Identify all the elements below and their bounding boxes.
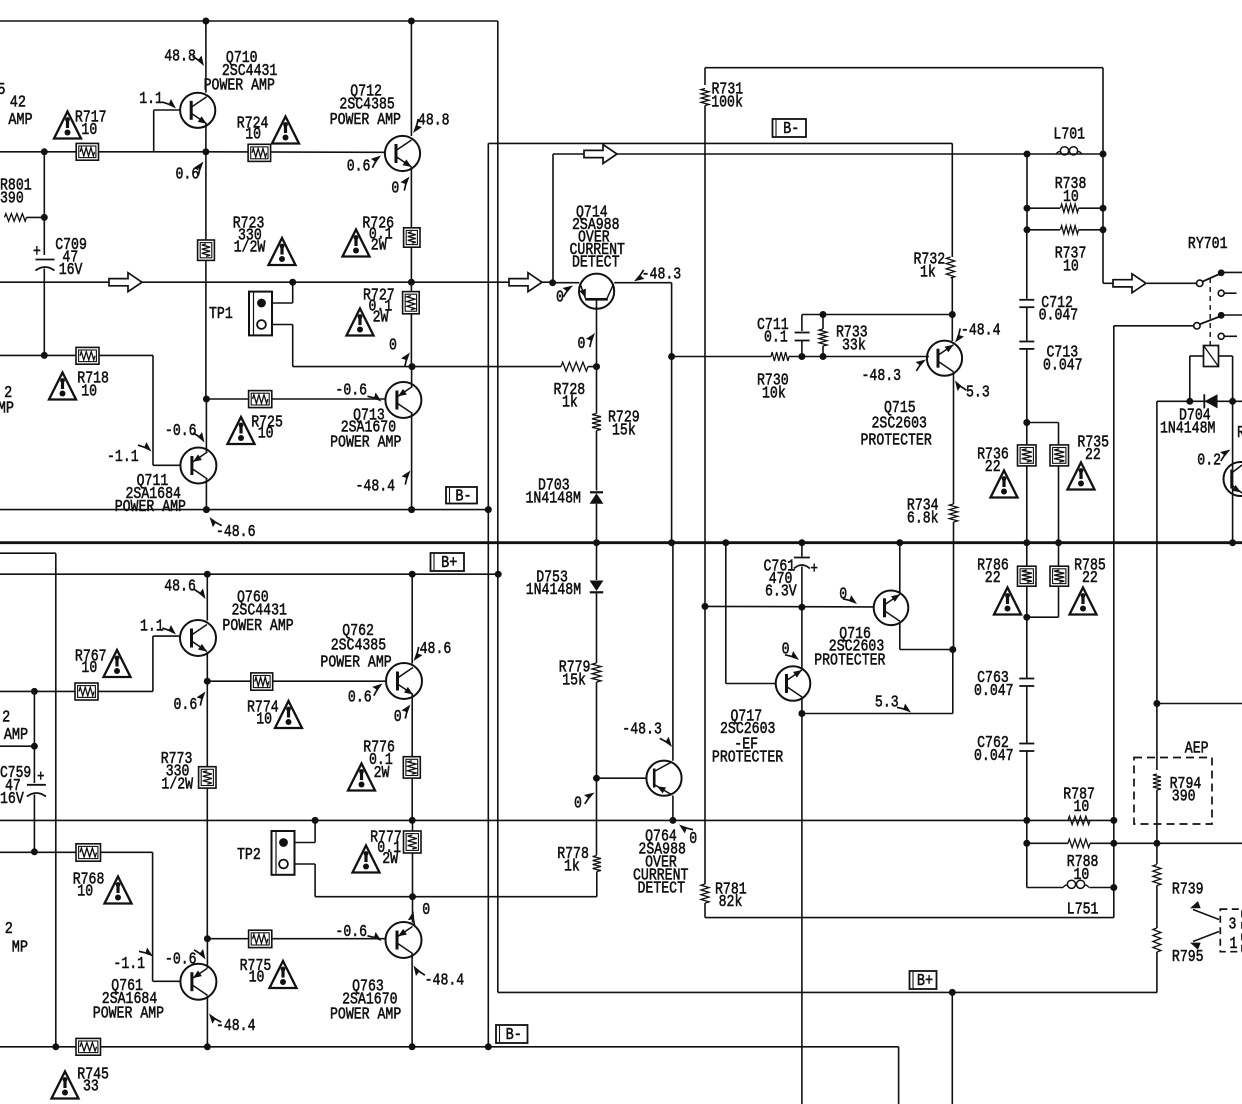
resistor R777	[404, 831, 422, 853]
wire Q764 emitter down	[672, 796, 674, 821]
svg-text:33k: 33k	[842, 337, 866, 355]
svg-text:2: 2	[5, 919, 13, 939]
wire C762 down	[1026, 751, 1028, 888]
wire speaker return vertical	[1113, 326, 1115, 918]
node C709 bottom junction	[41, 352, 48, 359]
node output rail right end	[1110, 817, 1117, 824]
svg-text:B-: B-	[455, 486, 471, 506]
svg-text:-48.4: -48.4	[961, 322, 1001, 340]
resistor R727	[403, 292, 420, 314]
svg-text:PROTECTER: PROTECTER	[712, 749, 783, 767]
wire TP2 bottom pin	[295, 863, 316, 865]
svg-text:390: 390	[0, 190, 24, 208]
capacitor C711	[801, 315, 803, 332]
wire Q717 base feed	[725, 543, 727, 684]
wire Q764 collector up	[672, 543, 674, 761]
AEP dashed box	[1134, 758, 1212, 825]
svg-text:48.8: 48.8	[164, 48, 196, 66]
wire coil right lead	[1219, 355, 1233, 357]
svg-text:MP: MP	[0, 398, 14, 418]
node Q716 at bus	[896, 539, 903, 546]
label B- top block	[446, 487, 477, 504]
wire top supply rail 48.8V	[0, 20, 498, 22]
wire R774 line	[207, 680, 386, 682]
svg-text:2W: 2W	[371, 237, 387, 255]
svg-text:-1.1: -1.1	[107, 449, 139, 467]
svg-text:B+: B+	[917, 971, 933, 991]
node Q714 base junction	[593, 363, 600, 370]
wire relay feed	[1103, 282, 1113, 284]
svg-text:-48.4: -48.4	[425, 972, 465, 990]
node Q713 collector at rail	[408, 506, 415, 513]
resistor R795	[1153, 928, 1161, 952]
svg-text:0.2: 0.2	[1197, 452, 1221, 470]
svg-text:10k: 10k	[762, 385, 786, 403]
wire R778 bottom line	[315, 896, 597, 898]
transistor Q713	[385, 382, 421, 418]
svg-text:2W: 2W	[382, 851, 398, 869]
wire B+ bottom bus	[498, 991, 1157, 993]
resistor R768 line	[0, 851, 153, 853]
node Q714 emitter wire junction	[549, 279, 556, 286]
svg-text:0: 0	[556, 289, 564, 307]
resistor R735	[1058, 423, 1060, 445]
resistor R739	[1156, 843, 1158, 864]
input arrow top block	[109, 273, 142, 292]
svg-text:1/2W: 1/2W	[161, 776, 193, 794]
svg-text:0: 0	[422, 902, 430, 920]
svg-text:22: 22	[985, 570, 1001, 588]
node C761 at bus	[798, 539, 805, 546]
node Q762 collector at rail	[409, 571, 416, 578]
wire top block negative rail -48.6	[0, 509, 488, 511]
svg-text:2W: 2W	[374, 765, 390, 783]
svg-text:10: 10	[256, 711, 272, 729]
resistor R768	[76, 844, 101, 861]
node R781 top junction	[702, 603, 709, 610]
capacitor C763	[1026, 617, 1028, 677]
svg-text:-0.6: -0.6	[335, 924, 367, 942]
wire Q710 collector	[205, 21, 207, 93]
wire Q716 emitter link	[900, 649, 953, 651]
svg-text:0: 0	[394, 709, 402, 727]
node B- rail junctions	[52, 1043, 59, 1050]
svg-text:AMP: AMP	[4, 725, 28, 745]
relay pole 1	[1197, 280, 1203, 286]
wire Q716 base line	[705, 605, 874, 608]
node L701 right junction	[1100, 151, 1107, 158]
resistor R785	[1058, 543, 1060, 567]
resistor R725	[249, 391, 272, 408]
wire Q762 emitter	[411, 695, 413, 757]
wire speaker line riser	[552, 154, 554, 283]
svg-text:1/2W: 1/2W	[234, 239, 266, 257]
relay pole 2	[1194, 323, 1200, 329]
svg-text:POWER AMP: POWER AMP	[330, 112, 401, 130]
wire R725 line	[206, 398, 385, 400]
svg-text:22: 22	[1082, 570, 1098, 588]
svg-text:-48.4: -48.4	[356, 478, 396, 496]
svg-text:1N4148M: 1N4148M	[526, 582, 581, 600]
wire C759 bottom	[33, 795, 35, 852]
node Q714 collector at bus	[668, 539, 675, 546]
svg-text:10: 10	[249, 969, 265, 987]
node Q711 collector at rail	[203, 506, 210, 513]
connector dashed box	[1220, 909, 1242, 952]
node B+ bus to speaker feed	[949, 989, 956, 996]
wire Q764 base lead	[597, 777, 646, 779]
resistor R733	[822, 315, 824, 330]
arrow to relay	[1113, 274, 1146, 293]
wire bottom B- rail	[0, 1046, 899, 1048]
resistor R731	[704, 68, 706, 85]
svg-text:POWER AMP: POWER AMP	[115, 499, 186, 517]
transistor Q761	[180, 964, 216, 1000]
wire Q716 collector up	[899, 543, 901, 593]
wire Q714 collector lead	[614, 282, 671, 284]
wire AEP feed vertical	[1156, 401, 1158, 770]
svg-text:L701: L701	[1053, 126, 1085, 144]
wire Q760 base jog	[152, 636, 154, 691]
svg-text:B-: B-	[506, 1025, 522, 1045]
svg-text:0.047: 0.047	[1039, 307, 1079, 325]
svg-text:5: 5	[0, 80, 6, 100]
wire Q713 collector down	[411, 414, 413, 510]
svg-text:B-: B-	[783, 119, 799, 139]
node Q760 emitter junction	[204, 678, 211, 685]
resistor R774	[251, 673, 273, 690]
svg-text:1.1: 1.1	[140, 618, 164, 636]
svg-text:R795: R795	[1172, 949, 1204, 967]
node Q717 collector junction	[798, 604, 805, 611]
wire arrow to switch	[1147, 282, 1197, 284]
node Q762 emitter at output rail	[409, 817, 416, 824]
wire 5.3 line	[802, 713, 953, 715]
wire Q763 emitter from R777 node	[412, 897, 414, 923]
resistor R723 chain	[205, 152, 207, 240]
svg-text:PROTECTER: PROTECTER	[861, 432, 932, 450]
svg-text:0: 0	[839, 586, 847, 604]
wire Q714 collector vertical	[671, 283, 673, 543]
capacitor C762	[1026, 686, 1028, 743]
svg-text:10: 10	[81, 383, 97, 401]
svg-text:10: 10	[81, 122, 97, 140]
wire B- top distribution line	[488, 142, 952, 144]
node Q710 collector at rail	[202, 18, 209, 25]
resistor R778	[596, 778, 598, 855]
wire Q716 emitter down	[899, 623, 901, 650]
inductor L751	[1067, 880, 1075, 888]
node TP2 at output rail	[312, 817, 319, 824]
svg-text:-48.3: -48.3	[622, 721, 662, 739]
test point TP2	[272, 831, 295, 875]
svg-text:10: 10	[245, 127, 261, 145]
svg-text:RY701: RY701	[1188, 236, 1228, 254]
svg-text:82k: 82k	[719, 894, 743, 912]
svg-text:5.3: 5.3	[966, 384, 990, 402]
resistor R773 chain	[206, 681, 208, 767]
wire R718 base line	[0, 354, 153, 356]
node R786 at bus	[1023, 539, 1030, 546]
svg-text:10: 10	[77, 883, 93, 901]
transistor Q760	[180, 620, 216, 656]
node Q712 collector at rail	[408, 18, 415, 25]
svg-text:48.6: 48.6	[164, 578, 196, 596]
svg-text:1k: 1k	[562, 394, 578, 412]
resistor R767	[75, 683, 98, 700]
transistor Q712	[385, 136, 420, 171]
transistor Q762	[386, 663, 422, 699]
wire R794 to junction	[1156, 790, 1158, 843]
svg-text:0: 0	[578, 336, 586, 354]
svg-text:TP1: TP1	[209, 306, 233, 324]
svg-text:DETECT: DETECT	[638, 880, 686, 898]
transistor Q718 partial at edge	[1224, 462, 1242, 496]
svg-text:1N4148M: 1N4148M	[1160, 420, 1215, 438]
wire B- feed stub left	[0, 552, 56, 554]
node Q710 emitter junction	[202, 148, 209, 155]
svg-text:3: 3	[1229, 916, 1237, 934]
wire Q717 emitter below to bottom	[801, 714, 803, 1104]
wire R736 R735 top link	[1027, 422, 1059, 424]
node D704 cathode junction	[1229, 398, 1236, 405]
svg-text:POWER AMP: POWER AMP	[93, 1005, 164, 1023]
node Q764 base junction	[593, 775, 600, 782]
resistor R775	[249, 930, 272, 947]
wire R851 stub	[0, 745, 34, 747]
wire Q761 collector down	[206, 996, 208, 1047]
resistor R779	[596, 592, 598, 663]
wire Q710 emitter	[205, 124, 207, 152]
svg-text:1k: 1k	[920, 264, 936, 282]
node C709 top junction	[41, 148, 48, 155]
label B+ upper	[431, 553, 465, 571]
node Q717 emitter junction	[798, 710, 805, 717]
resistor R729	[592, 414, 601, 431]
resistor R786	[1026, 543, 1028, 567]
wire Q712 emitter to R726	[410, 167, 412, 228]
wire speaker feed down	[951, 992, 953, 1104]
svg-text:16V: 16V	[59, 262, 83, 280]
node R777 bottom junction	[409, 893, 416, 900]
node negative rail to B- vertical	[485, 506, 492, 513]
svg-text:B+: B+	[441, 553, 457, 573]
wire C709 vertical	[43, 152, 45, 255]
svg-text:2SC2603: 2SC2603	[872, 415, 927, 433]
node R725 line junction	[203, 396, 210, 403]
capacitor C712	[1026, 230, 1028, 299]
svg-text:R739: R739	[1172, 881, 1204, 899]
capacitor C713	[1026, 307, 1028, 340]
wire TP1 top pin	[272, 302, 293, 304]
wire R788 line to edge	[1114, 842, 1242, 844]
node L751 right	[1110, 884, 1117, 891]
svg-text:L751: L751	[1067, 901, 1099, 919]
node D704 anode junction	[1186, 398, 1193, 405]
node R801 junction	[41, 214, 48, 221]
svg-text:-0.6: -0.6	[335, 382, 367, 400]
svg-text:TP2: TP2	[237, 847, 261, 865]
svg-text:+: +	[37, 769, 44, 787]
resistor R776	[403, 757, 420, 778]
node C762 at output rail	[1023, 817, 1030, 824]
label B- bottom	[496, 1025, 528, 1043]
resistor R734	[949, 504, 957, 522]
svg-text:-48.6: -48.6	[216, 524, 256, 542]
connector arrow lower	[1193, 932, 1219, 942]
wire D704 line	[1157, 400, 1242, 402]
svg-text:-1.1: -1.1	[113, 956, 145, 974]
svg-text:POWER AMP: POWER AMP	[330, 434, 401, 452]
wire Q711 collector down	[205, 479, 207, 510]
svg-text:33: 33	[83, 1078, 99, 1096]
svg-text:0.047: 0.047	[974, 683, 1014, 701]
svg-text:1k: 1k	[564, 858, 580, 876]
diode D753	[596, 543, 598, 580]
svg-text:0.6: 0.6	[348, 689, 372, 707]
wire R724 line	[206, 151, 385, 154]
svg-text:0.6: 0.6	[347, 158, 371, 176]
resistor R726	[404, 228, 420, 247]
node TP1 at output rail	[289, 279, 296, 286]
node R786 bottom junction	[1023, 614, 1030, 621]
svg-text:-48.4: -48.4	[216, 1018, 256, 1036]
svg-text:AMP: AMP	[8, 110, 32, 130]
label B+ lower	[910, 971, 937, 989]
wire pole2 feed	[1114, 325, 1194, 327]
svg-text:15k: 15k	[562, 672, 586, 690]
node Q760 collector at rail	[204, 571, 211, 578]
svg-text:22: 22	[1085, 447, 1101, 465]
node R851 junction	[31, 743, 38, 750]
relay coil	[1204, 346, 1219, 367]
svg-text:10: 10	[81, 660, 97, 678]
resistor R730	[771, 352, 789, 361]
svg-text:48.6: 48.6	[420, 641, 452, 659]
svg-text:0: 0	[389, 337, 397, 355]
svg-text:10: 10	[1063, 258, 1079, 276]
wire L701 right vertical	[1102, 68, 1104, 284]
relay linkage dashed	[1209, 278, 1211, 345]
svg-text:MP: MP	[12, 937, 28, 957]
transistor Q715	[927, 341, 962, 376]
svg-text:390: 390	[1172, 788, 1196, 806]
svg-text:16V: 16V	[0, 791, 24, 809]
inductor L701	[1060, 147, 1068, 155]
svg-text:1: 1	[1230, 936, 1238, 954]
wire coil left lead	[1190, 355, 1204, 357]
wire Q715 emitter top	[951, 315, 953, 342]
svg-text:48.8: 48.8	[418, 112, 450, 130]
node R733 C711 top wire	[802, 314, 952, 316]
node C759 top junction	[31, 688, 38, 695]
wire Q717 emitter down	[801, 698, 803, 714]
wire Q763 collector down	[411, 954, 413, 1047]
svg-text:10: 10	[1074, 867, 1090, 885]
connector arrow upper	[1193, 910, 1219, 920]
wire C713 down to R736 junction	[1026, 349, 1028, 445]
node R730 tap	[668, 353, 675, 360]
svg-text:R: R	[1237, 425, 1242, 443]
transistor Q710	[180, 93, 215, 128]
resistor R728	[561, 362, 588, 371]
wire Q715 collector below bus	[953, 543, 955, 650]
resistor R745 in B- rail	[76, 1038, 101, 1055]
wire Q712 collector	[410, 21, 412, 136]
svg-text:DETECT: DETECT	[572, 254, 620, 272]
svg-text:10: 10	[1063, 189, 1079, 207]
node D703 at bus	[593, 539, 600, 546]
diode D703	[590, 491, 603, 493]
node R775 line junction	[204, 935, 211, 942]
wire B+ right border vertical	[497, 21, 499, 992]
wire speaker line bottom	[705, 917, 1114, 919]
wire C709 bottom to R718 line	[43, 269, 45, 356]
svg-text:0: 0	[391, 180, 399, 198]
wire Q761 emitter up	[206, 939, 208, 968]
wire TP2 top pin	[295, 842, 316, 844]
svg-text:POWER AMP: POWER AMP	[320, 654, 391, 672]
svg-text:0: 0	[689, 831, 697, 849]
wire Q718 base vertical	[1232, 401, 1234, 542]
capacitor C761	[801, 543, 803, 557]
svg-text:-0.6: -0.6	[165, 951, 197, 969]
resistor R732	[951, 143, 953, 257]
node Q716 emitter junction	[949, 646, 956, 653]
svg-text:+: +	[811, 561, 818, 579]
node R736 top junction	[1023, 419, 1030, 426]
resistor R787 on output rail	[1068, 816, 1090, 824]
wire Q711 emitter up	[205, 399, 207, 452]
svg-text:6.8k: 6.8k	[907, 510, 939, 528]
wire Q760 collector	[206, 574, 208, 620]
wire R775 line	[207, 938, 385, 940]
wire right mid line to edge	[1157, 703, 1242, 705]
wire Q762 collector	[411, 574, 413, 663]
transistor Q716	[874, 591, 909, 626]
wire Q761 base jog	[152, 852, 154, 981]
svg-text:POWER AMP: POWER AMP	[330, 1006, 401, 1024]
svg-text:2W: 2W	[373, 309, 389, 327]
svg-text:1N4148M: 1N4148M	[526, 490, 581, 508]
transistor Q764 over current detect	[646, 761, 681, 796]
wire Q711 base jog	[152, 355, 154, 465]
wire main horizontal bus	[0, 541, 1242, 544]
svg-text:-0.6: -0.6	[165, 423, 197, 441]
node R788 right	[1110, 840, 1117, 847]
node C711 bottom	[798, 353, 805, 360]
svg-text:0.047: 0.047	[974, 748, 1014, 766]
transistor Q763	[386, 922, 422, 958]
wire Q714 emitter lead	[553, 282, 580, 284]
wire Q710 base jog	[153, 110, 155, 152]
svg-text:2SC4385: 2SC4385	[331, 637, 386, 655]
svg-text:0.1: 0.1	[764, 329, 788, 347]
node B+ junction	[495, 571, 502, 578]
node Q764 emitter at rail	[669, 817, 676, 824]
transistor Q714 over current detect	[579, 274, 614, 309]
wire Q717 collector up	[801, 607, 803, 669]
svg-text:1.1: 1.1	[139, 91, 163, 109]
resistor R738	[1027, 207, 1060, 209]
transistor Q717	[776, 666, 811, 701]
node R733 bottom	[820, 353, 827, 360]
wire bottom block output rail	[0, 819, 1114, 821]
svg-text:10: 10	[258, 425, 274, 443]
node Q718 base at bus	[1229, 539, 1236, 546]
node R788 left	[1023, 840, 1030, 847]
node L701 left junction	[1024, 151, 1031, 158]
